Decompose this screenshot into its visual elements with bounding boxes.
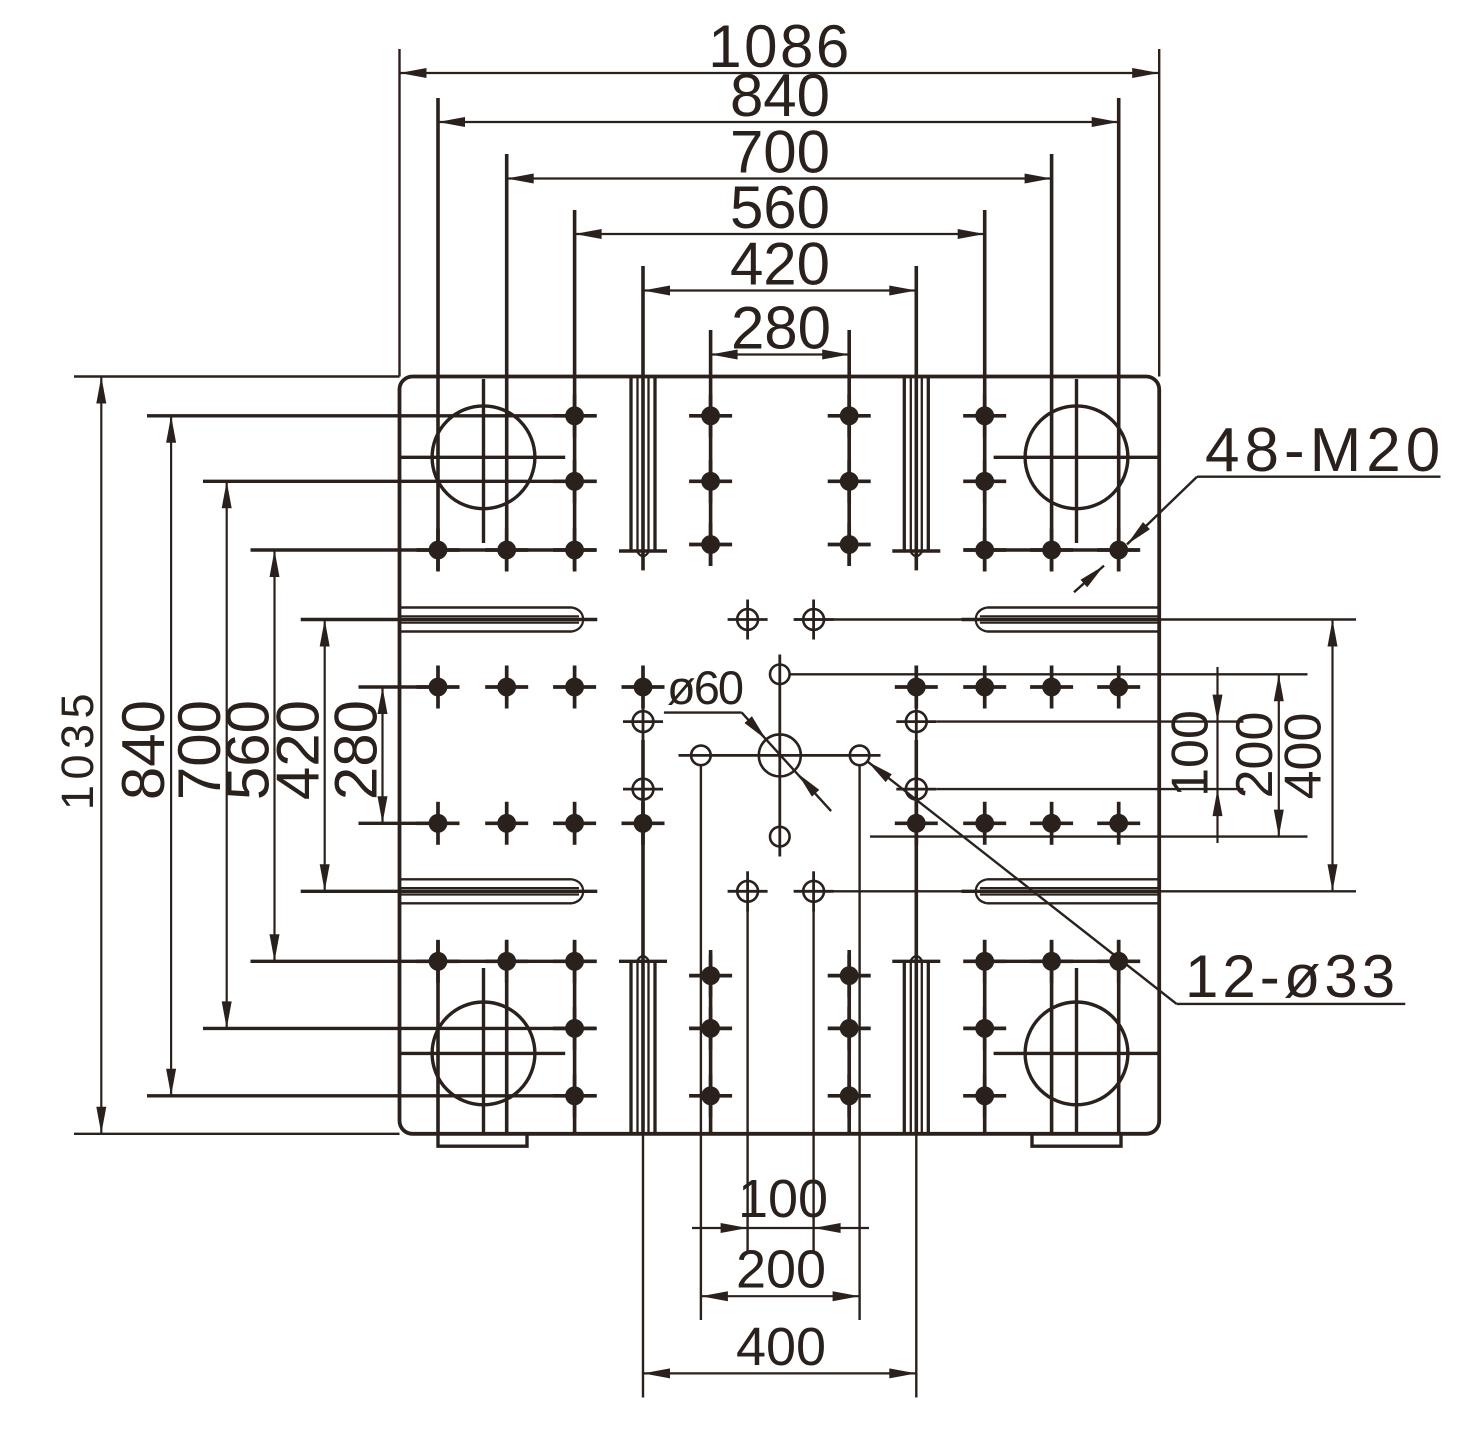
- svg-text:1035: 1035: [52, 688, 103, 810]
- svg-text:420: 420: [265, 700, 332, 800]
- svg-text:ø60: ø60: [667, 661, 743, 714]
- svg-text:420: 420: [730, 231, 830, 298]
- svg-text:100: 100: [1162, 710, 1220, 797]
- svg-text:12-ø33: 12-ø33: [1185, 943, 1399, 1010]
- svg-text:280: 280: [323, 700, 390, 800]
- svg-text:100: 100: [738, 1169, 828, 1229]
- svg-text:200: 200: [736, 1240, 826, 1300]
- svg-text:48-M20: 48-M20: [1205, 416, 1445, 485]
- svg-text:280: 280: [731, 295, 831, 362]
- svg-text:400: 400: [1275, 713, 1333, 800]
- svg-text:400: 400: [736, 1317, 826, 1377]
